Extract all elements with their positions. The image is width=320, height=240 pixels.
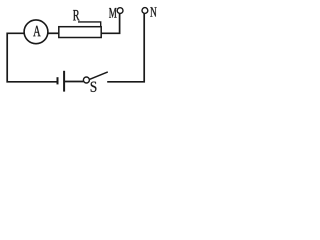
switch S blade — [90, 72, 108, 79]
label M — [109, 8, 117, 18]
wire ammeter to resistor — [48, 32, 59, 34]
label R — [73, 10, 80, 20]
slider arm line above resistor — [78, 22, 101, 27]
battery long plate — [63, 71, 65, 92]
battery short plate — [57, 77, 59, 84]
label N — [150, 7, 156, 16]
ammeter A circle — [24, 20, 48, 44]
wire: top-left corner, left side and bottom run to battery — [7, 33, 57, 82]
resistor R box — [59, 27, 101, 38]
terminal N circle — [142, 8, 148, 14]
switch S pivot circle — [83, 77, 89, 83]
wire resistor to M terminal — [101, 14, 119, 34]
label S — [91, 82, 97, 92]
terminal M circle — [117, 8, 123, 14]
wire N terminal down and along bottom to switch — [107, 14, 144, 82]
wire battery to switch — [65, 81, 83, 83]
ammeter letter A — [33, 26, 40, 36]
